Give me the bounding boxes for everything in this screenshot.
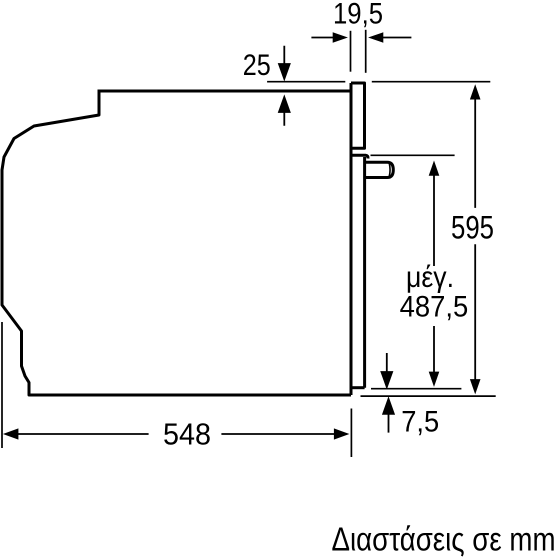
svg-text:μέγ.: μέγ. bbox=[406, 261, 454, 294]
bottom reference line upper (door bottom level) bbox=[371, 388, 461, 390]
svg-text:595: 595 bbox=[451, 210, 494, 246]
extension line door top (487,5 top ref) bbox=[371, 154, 455, 156]
dim 25 up arrow bbox=[279, 97, 290, 126]
dim 487,5 top arrowhead bbox=[429, 161, 440, 176]
latch inner line bbox=[388, 164, 391, 177]
top extension line (right of fascia) bbox=[372, 81, 491, 83]
svg-text:487,5: 487,5 bbox=[400, 291, 469, 324]
dim 487,5 bottom arrowhead bbox=[429, 372, 440, 387]
door front edge bbox=[363, 157, 366, 388]
dim 595 top arrowhead bbox=[470, 84, 481, 99]
bottom reference line lower bbox=[361, 395, 496, 397]
svg-text:7,5: 7,5 bbox=[401, 406, 439, 439]
dim 548 left extension line bbox=[1, 322, 3, 448]
oven front face line bbox=[350, 83, 353, 395]
dim 25 down arrow bbox=[279, 46, 290, 79]
top extension line (left of fascia) bbox=[267, 81, 345, 83]
dim 548 right extension line bbox=[350, 409, 352, 458]
control fascia bbox=[351, 83, 365, 148]
dim 487,5 line bbox=[433, 174, 435, 373]
svg-text:25: 25 bbox=[243, 49, 271, 82]
oven body outline bbox=[2, 90, 351, 396]
svg-text:19,5: 19,5 bbox=[333, 0, 383, 30]
dim 548 line left segment with arrowhead bbox=[17, 433, 149, 435]
dim 548 line right segment with arrowhead bbox=[221, 433, 334, 435]
dim 19,5 extension line left bbox=[350, 31, 352, 72]
dim 19,5 extension line right bbox=[365, 30, 367, 73]
door bottom edge bbox=[351, 386, 365, 389]
dim 595 bottom arrowhead bbox=[470, 379, 481, 394]
dim 7,5 lower up arrow bbox=[383, 399, 394, 433]
oven body top edge bbox=[99, 90, 352, 93]
dim 7,5 upper down arrow bbox=[382, 353, 393, 387]
svg-text:548: 548 bbox=[163, 417, 211, 452]
dim 19,5 right arrow bbox=[382, 37, 411, 39]
dim 19,5 left arrow bbox=[311, 37, 334, 39]
dim 595 line bbox=[474, 98, 476, 381]
latch bbox=[365, 162, 394, 177]
door top edge with lip bbox=[351, 155, 368, 158]
svg-text:Διαστάσεις σε mm: Διαστάσεις σε mm bbox=[332, 520, 556, 557]
